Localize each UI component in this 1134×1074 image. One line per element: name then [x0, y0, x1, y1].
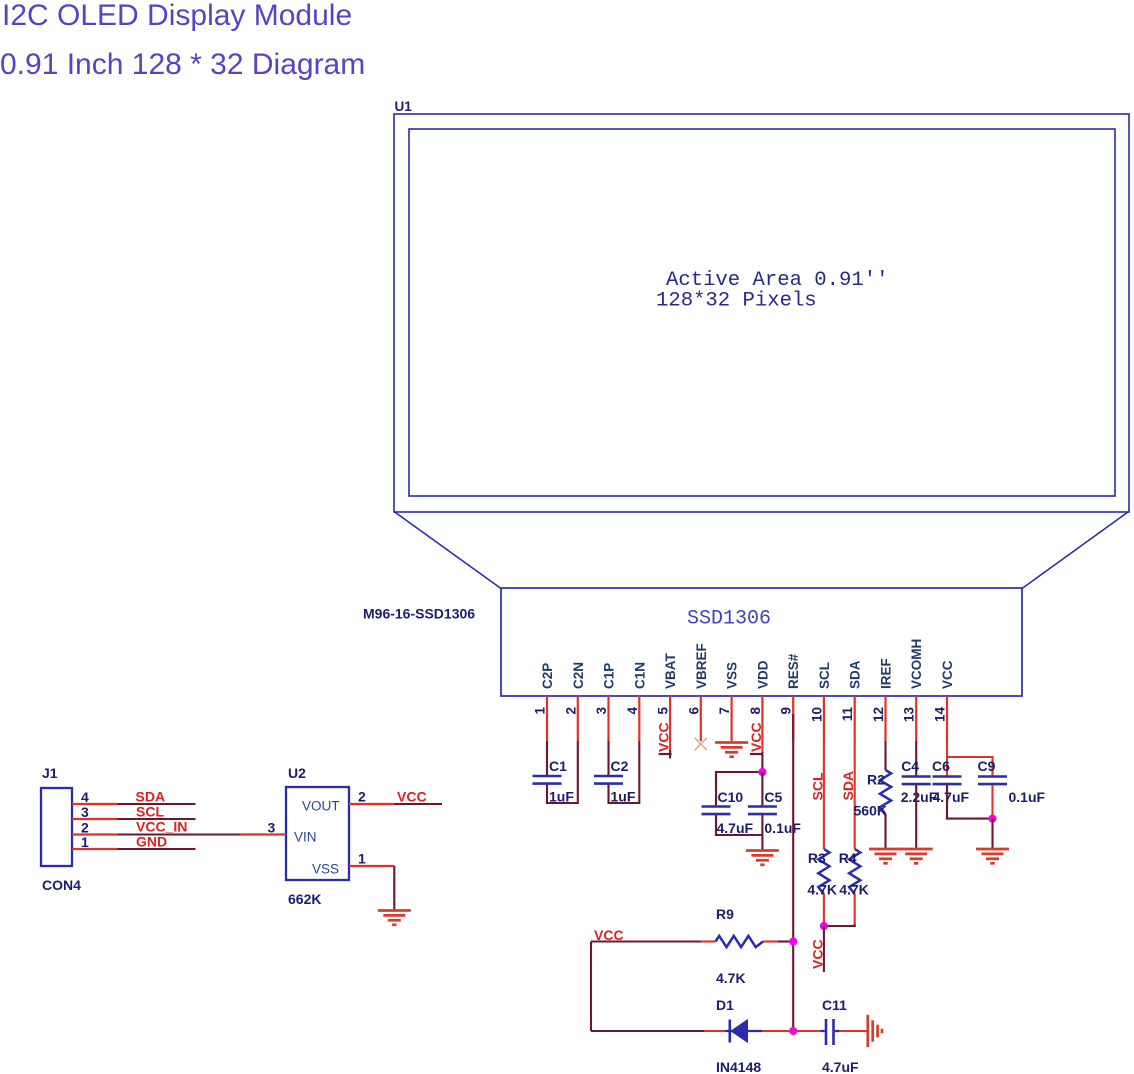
svg-text:SSD1306: SSD1306 [687, 608, 771, 631]
svg-text:10: 10 [809, 707, 824, 722]
pin 4 stub [638, 696, 640, 741]
svg-text:C2P: C2P [540, 663, 555, 689]
ground (C6/C9) [976, 849, 1009, 863]
wire VCC to R9 [591, 940, 701, 942]
wire VCC out [394, 803, 442, 805]
svg-text:IREF: IREF [879, 658, 894, 689]
pin 9 stub [792, 696, 794, 741]
diode D1 lead right / wire to junction [762, 1030, 793, 1032]
svg-text:4.7K: 4.7K [807, 882, 837, 898]
node junction at pin8/C5 [758, 768, 766, 776]
wire C4 to ground [915, 785, 917, 849]
svg-text:4.7K: 4.7K [716, 970, 746, 986]
ground (R1) [869, 849, 902, 863]
resistor R3 [818, 849, 829, 894]
wire C9 bottom to junction [991, 785, 993, 819]
diode D1 lead left [704, 1030, 726, 1032]
power VCC bar (pin8) [750, 753, 763, 755]
wire pin13 to C4 [915, 741, 917, 776]
svg-text:VDD: VDD [755, 660, 770, 689]
no-connect X on pin 6 [695, 738, 707, 750]
pin 5 stub [669, 696, 671, 741]
svg-text:0.1uF: 0.1uF [1009, 789, 1046, 805]
wire junction to C5 [761, 772, 763, 806]
pin 13 stub [915, 696, 917, 741]
wire net SCL [118, 818, 196, 820]
svg-text:7: 7 [717, 707, 732, 715]
node junction D1/RES# [789, 1027, 797, 1035]
svg-text:VBREF: VBREF [694, 643, 709, 689]
svg-text:VCC_IN: VCC_IN [136, 819, 187, 835]
pin 3 stub [607, 696, 609, 741]
wire VCC branch down [590, 942, 592, 1032]
wire: right bezel diagonal [1022, 512, 1129, 589]
capacitor C2 [594, 776, 623, 784]
svg-text:GND: GND [136, 834, 167, 850]
svg-text:14: 14 [933, 707, 948, 723]
svg-text:5: 5 [656, 707, 671, 715]
ground (C4) [900, 849, 933, 863]
capacitor C11 [821, 1019, 840, 1045]
pin 2 stub [577, 696, 579, 741]
wire C6 bottom to junction [947, 785, 993, 819]
svg-text:C5: C5 [764, 789, 782, 805]
svg-text:1: 1 [81, 834, 89, 850]
svg-text:C11: C11 [822, 997, 847, 1013]
wire to D1 anode [591, 1030, 704, 1032]
node junction R3/R4 [820, 922, 828, 930]
wire C2 bottom to pin4 [609, 741, 640, 803]
svg-text:3: 3 [594, 707, 609, 715]
wire C1 bottom to pin2 [547, 741, 578, 803]
wire C10/C5 bottoms to ground [716, 815, 762, 835]
svg-text:C2: C2 [611, 758, 629, 774]
U2 pin 2 stub (VOUT) [349, 803, 394, 805]
resistor R2 [880, 770, 891, 814]
svg-text:0.91 Inch 128 * 32 Diagram: 0.91 Inch 128 * 32 Diagram [0, 48, 365, 81]
driver IC box SSD1306 [501, 588, 1022, 696]
svg-text:VCC: VCC [656, 722, 672, 752]
U2 pin 3 stub (VIN) [241, 833, 287, 835]
OLED display U1 outer outline [394, 114, 1129, 512]
node junction R9/RES# [789, 937, 797, 945]
svg-text:4.7uF: 4.7uF [933, 789, 970, 805]
svg-text:U1: U1 [395, 99, 413, 114]
svg-text:C6: C6 [932, 758, 950, 774]
svg-text:4.7uF: 4.7uF [717, 820, 754, 836]
wire pin12 to R1 [884, 741, 886, 770]
svg-text:C10: C10 [718, 789, 744, 805]
wire pin14 to C6 and C9 [946, 741, 948, 776]
svg-text:R2: R2 [867, 772, 885, 788]
svg-text:12: 12 [871, 707, 886, 722]
svg-text:J1: J1 [42, 765, 58, 781]
svg-text:R9: R9 [716, 906, 734, 922]
svg-text:U2: U2 [288, 765, 306, 781]
svg-text:C1N: C1N [632, 662, 647, 689]
svg-text:RES#: RES# [786, 653, 801, 689]
svg-text:662K: 662K [288, 891, 321, 907]
svg-text:3: 3 [81, 804, 89, 820]
svg-text:2: 2 [358, 789, 366, 805]
resistor R9 lead left [701, 940, 716, 942]
svg-text:C1P: C1P [602, 663, 617, 689]
ground (U2 VSS) [378, 911, 411, 925]
svg-text:1: 1 [358, 851, 366, 867]
svg-text:VCC: VCC [397, 789, 427, 805]
svg-text:I2C OLED Display Module: I2C OLED Display Module [2, 0, 352, 32]
wire junction to C11 [793, 1030, 821, 1032]
wire junction to ground [991, 819, 993, 849]
wire: left bezel diagonal [394, 512, 501, 589]
svg-text:IN4148: IN4148 [716, 1059, 761, 1074]
svg-text:VIN: VIN [294, 830, 317, 845]
svg-text:560K: 560K [854, 803, 887, 819]
wire net SDA [118, 803, 196, 805]
resistor R9 lead right [763, 940, 778, 942]
OLED display U1 inner outline [409, 129, 1115, 496]
svg-text:VOUT: VOUT [302, 799, 340, 814]
svg-text:VBAT: VBAT [663, 652, 678, 689]
wire R1 to ground [884, 814, 886, 849]
pin 12 stub [884, 696, 886, 741]
wire pin3 to C2 [607, 741, 609, 776]
svg-text:128*32 Pixels: 128*32 Pixels [656, 290, 817, 313]
connector J1 box [41, 788, 72, 866]
wire pin8 down to junction [761, 741, 763, 752]
capacitor C1 [533, 776, 562, 784]
capacitor C6 [933, 777, 962, 785]
svg-text:R3: R3 [808, 850, 826, 866]
J1 pin 4 stub [72, 803, 118, 805]
svg-text:11: 11 [840, 707, 855, 722]
svg-text:SDA: SDA [136, 789, 166, 805]
svg-text:0.1uF: 0.1uF [764, 820, 801, 836]
wire net VCC_IN to U2 [118, 833, 241, 835]
svg-text:C1: C1 [549, 758, 567, 774]
wire pin1 to C1 [546, 741, 548, 776]
svg-text:C9: C9 [978, 758, 996, 774]
svg-text:3: 3 [268, 820, 276, 836]
wire junction down to VCC [823, 926, 825, 972]
pin 8 stub [761, 696, 763, 741]
pin 14 stub [946, 696, 948, 741]
svg-text:SCL: SCL [136, 804, 164, 820]
ground (C10/C5) [746, 851, 779, 865]
svg-text:1: 1 [533, 707, 548, 715]
J1 pin 1 stub [72, 848, 118, 850]
svg-text:M96-16-SSD1306: M96-16-SSD1306 [363, 606, 475, 622]
svg-text:C2N: C2N [571, 662, 586, 689]
resistor R4 [849, 849, 860, 894]
wire junction to C10 branch [716, 772, 762, 806]
pin 11 stub [854, 696, 856, 741]
J1 pin 3 stub [72, 818, 118, 820]
svg-text:SCL: SCL [817, 662, 832, 689]
svg-text:SDA: SDA [848, 660, 863, 689]
J1 pin 2 stub [72, 833, 118, 835]
wire net GND [118, 848, 196, 850]
svg-text:VCC: VCC [809, 939, 825, 969]
wire R4 bottom to junction [854, 894, 856, 924]
capacitor C10 [702, 807, 731, 815]
ground (C11, sideways) [868, 1015, 882, 1047]
diode D1 [726, 1020, 763, 1043]
wire pin10 to R3 [823, 741, 825, 849]
svg-text:VSS: VSS [725, 662, 740, 689]
regulator U2 box [286, 787, 349, 880]
pin 1 stub [546, 696, 548, 741]
svg-text:D1: D1 [716, 997, 734, 1013]
svg-text:9: 9 [779, 707, 794, 715]
svg-text:VCOMH: VCOMH [909, 639, 924, 689]
wire R3 bottom to junction [823, 894, 825, 926]
resistor R9 [716, 936, 764, 947]
svg-text:6: 6 [686, 707, 701, 715]
wire pin9 RES# vertical [792, 714, 794, 1031]
svg-text:VSS: VSS [312, 862, 339, 877]
pin 6 stub [700, 696, 702, 741]
node junction C6/C9 [988, 815, 996, 823]
svg-text:13: 13 [902, 707, 917, 723]
ground (pin7 VSS) [715, 743, 748, 757]
svg-text:4.7uF: 4.7uF [822, 1059, 859, 1074]
svg-text:VCC: VCC [940, 660, 955, 689]
svg-text:2: 2 [563, 707, 578, 715]
svg-text:8: 8 [748, 707, 763, 715]
capacitor C5 [748, 807, 777, 815]
capacitor C9 [978, 777, 1007, 785]
wire U2 VSS to ground [393, 866, 395, 910]
svg-text:4: 4 [81, 789, 89, 805]
pin 7 stub [730, 696, 732, 741]
svg-text:C4: C4 [901, 758, 919, 774]
wire pin5 to VCC rail [669, 741, 671, 750]
pin 10 stub [823, 696, 825, 741]
svg-text:CON4: CON4 [42, 877, 81, 893]
wire pin11 to R4 [854, 741, 856, 849]
capacitor C4 [902, 777, 931, 785]
power VCC bar (pin5) [659, 753, 672, 755]
wire R9 to RES# net [778, 940, 793, 942]
U2 pin 1 stub (VSS) [349, 865, 394, 867]
wire C11 to ground [839, 1030, 867, 1032]
svg-text:R4: R4 [839, 850, 857, 866]
svg-text:4: 4 [625, 707, 640, 715]
